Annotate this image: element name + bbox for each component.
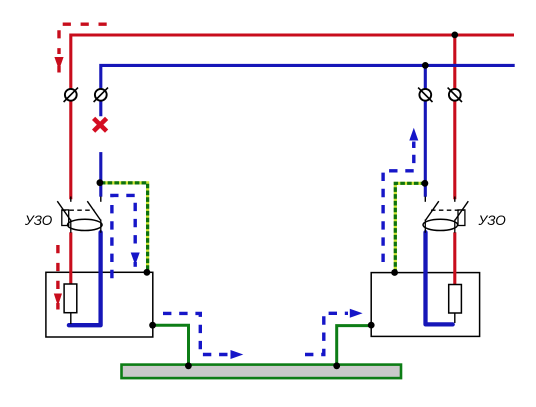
wire L drop right (453, 35, 456, 199)
wire N bus top (101, 65, 515, 116)
fault current path up through right RCD (383, 128, 418, 262)
PE bond wire left (yellow-green) (101, 183, 148, 272)
resistor load left (64, 284, 77, 324)
current arrow red in load left (54, 245, 62, 310)
junction node box top left (144, 269, 151, 276)
fault current path left box to bar (163, 313, 243, 359)
terminal T1 (64, 88, 78, 102)
wire L left into load (69, 232, 72, 285)
PE bond wire right (yellow-green) (395, 183, 425, 272)
wire L phase bus top (71, 35, 514, 199)
wire N right in load box (426, 232, 453, 324)
terminal T2 (94, 88, 108, 102)
junction node bar left (185, 362, 192, 369)
wire N drop right (424, 65, 427, 196)
RCD U2 right (423, 197, 468, 233)
junction node bar right (333, 362, 340, 369)
PE wire right to ground bar (337, 326, 372, 366)
wire L right into load (453, 232, 456, 285)
PE wire left to ground bar (153, 325, 189, 365)
svg-text:УЗО: УЗО (478, 213, 507, 228)
junction node PE-N right (422, 180, 429, 187)
svg-text:УЗО: УЗО (24, 213, 53, 228)
current arrow red feed top (54, 24, 106, 72)
junction node box left edge right (368, 322, 375, 329)
wire N left in load box (69, 232, 101, 325)
fault current path bar to right box (305, 309, 363, 355)
RCD U1 left (57, 197, 102, 233)
terminal T3 (418, 88, 432, 102)
junction node L bus (451, 32, 458, 39)
junction node box top right (391, 269, 398, 276)
ground bar (122, 365, 402, 379)
junction node N bus (422, 62, 429, 69)
junction node PE-N left (97, 179, 104, 186)
fault current path around left RCD (112, 195, 140, 278)
load box left (46, 272, 153, 337)
load box right (371, 273, 479, 337)
junction node box right edge left (149, 322, 156, 329)
wire N left below break (99, 152, 102, 197)
terminal T4 (448, 88, 462, 102)
resistor load right (449, 285, 462, 324)
break mark X on neutral (94, 118, 107, 131)
